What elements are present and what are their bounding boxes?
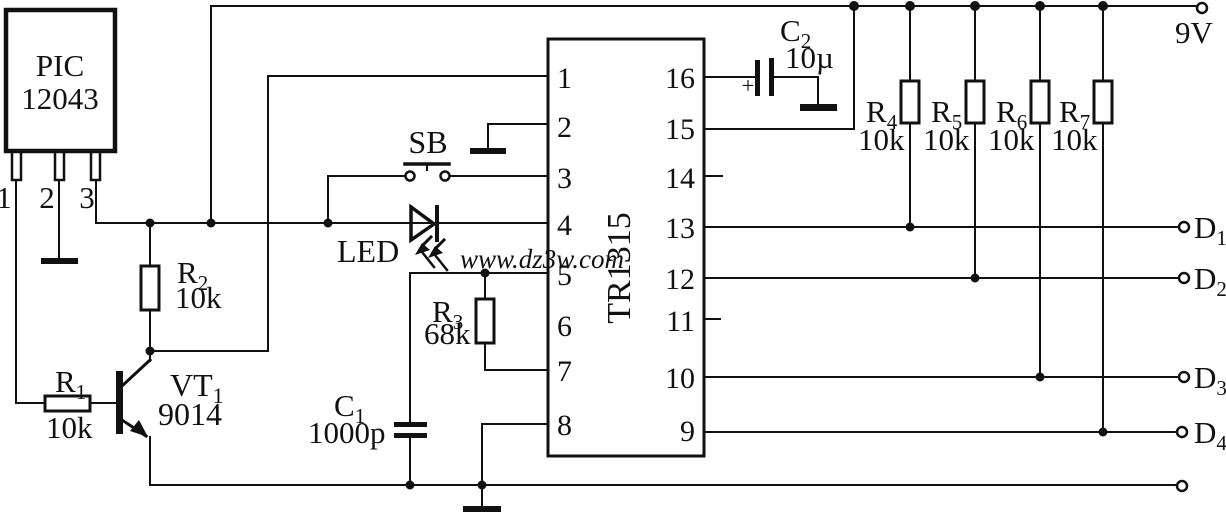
node ground junction: [478, 481, 487, 490]
svg-text:1: 1: [557, 62, 572, 95]
wire pin5 loop: [410, 273, 548, 422]
resistor R5: [974, 6, 976, 278]
svg-text:68k: 68k: [424, 316, 471, 351]
wire pin3 down and right to LED/pin4: [96, 180, 548, 223]
ground (bottom): [481, 485, 483, 506]
svg-text:13: 13: [665, 212, 695, 245]
PIC 12043: [6, 10, 115, 151]
resistor R6: [1039, 6, 1041, 377]
wire bottom rail: [150, 484, 1177, 486]
wire SB drop to LED line: [327, 176, 329, 223]
svg-text:10k: 10k: [175, 280, 222, 315]
svg-text:10µ: 10µ: [785, 40, 834, 75]
resistor R7: [1102, 6, 1104, 432]
op IC TR1315: [548, 39, 704, 456]
wire pin1 to R1: [16, 180, 45, 403]
svg-text:10k: 10k: [1051, 122, 1098, 157]
svg-text:3: 3: [79, 180, 95, 215]
wire pin10 to D3: [704, 376, 1179, 378]
wire pin2 to ground: [58, 180, 60, 257]
svg-text:10k: 10k: [988, 122, 1035, 157]
node junction R2 top: [146, 219, 155, 228]
LED emission arrow 2: [436, 240, 444, 248]
wire collector to IC pin1: [150, 76, 548, 351]
svg-text:9V: 9V: [1175, 15, 1214, 50]
svg-text:2: 2: [557, 111, 572, 144]
terminal D3: [1179, 372, 1189, 382]
svg-text:14: 14: [665, 162, 695, 195]
ground (IC pin2): [470, 148, 506, 154]
svg-text:1000p: 1000p: [308, 415, 386, 450]
svg-text:3: 3: [557, 162, 572, 195]
svg-text:+: +: [742, 73, 755, 98]
node collector junction: [146, 347, 155, 356]
terminal D4: [1177, 427, 1187, 437]
LED: [411, 207, 434, 240]
PIC pin 1: [12, 151, 21, 180]
svg-text:1: 1: [0, 180, 12, 215]
PIC pin 3: [91, 151, 100, 180]
resistor R3: [485, 273, 548, 370]
node R3 top: [481, 269, 490, 278]
terminal D2: [1179, 273, 1189, 283]
resistor R2: [149, 223, 151, 351]
LED emission arrow 1: [423, 237, 431, 245]
terminal D1: [1179, 222, 1189, 232]
svg-text:6: 6: [557, 310, 572, 343]
svg-text:4: 4: [557, 209, 572, 242]
wire pin8: [482, 424, 548, 485]
svg-text:12043: 12043: [21, 81, 99, 116]
svg-text:9: 9: [680, 415, 695, 448]
pin 11 stub: [704, 318, 720, 320]
svg-text:10k: 10k: [858, 122, 905, 157]
node junction top-wire drop: [207, 219, 216, 228]
svg-text:8: 8: [557, 409, 572, 442]
wire pin9 to D4: [704, 431, 1177, 433]
transistor VT1: [116, 371, 123, 434]
wire pin12 to D2: [704, 277, 1179, 279]
wire pin2 IC to ground: [488, 124, 548, 148]
wire R1 to base: [90, 402, 116, 404]
svg-text:11: 11: [666, 305, 695, 338]
wire pin16 to C2: [704, 76, 755, 78]
svg-text:9014: 9014: [158, 396, 222, 432]
wire top-rail drop: [210, 6, 212, 223]
svg-text:PIC: PIC: [36, 48, 84, 83]
svg-text:10k: 10k: [46, 410, 93, 445]
resistor R1: [45, 396, 90, 411]
ground (C2): [800, 104, 837, 111]
wire pin15 up to rail: [704, 6, 854, 129]
PIC pin 2: [55, 151, 64, 180]
svg-text:7: 7: [557, 355, 572, 388]
wire pin13 to D1: [704, 226, 1179, 228]
svg-text:SB: SB: [408, 124, 447, 160]
pin 14 stub: [704, 175, 722, 177]
svg-text:2: 2: [39, 180, 55, 215]
svg-text:12: 12: [665, 263, 695, 296]
node rail pin15: [849, 1, 859, 11]
node C1 bottom: [406, 481, 415, 490]
svg-text:www.dz3w.com: www.dz3w.com: [460, 244, 624, 274]
svg-text:10k: 10k: [923, 122, 970, 157]
wire SB left: [328, 175, 405, 177]
svg-text:15: 15: [665, 113, 695, 146]
svg-text:LED: LED: [337, 233, 399, 269]
wire top rail to 9V: [211, 5, 1197, 7]
capacitor C1: [394, 422, 427, 427]
svg-text:10: 10: [665, 362, 695, 395]
9V terminal: [1197, 3, 1207, 13]
resistor R4: [909, 6, 911, 227]
node junction SB drop: [324, 219, 333, 228]
wire SB right to pin3: [450, 175, 548, 177]
bottom terminal: [1177, 481, 1187, 491]
capacitor C2: [755, 60, 760, 96]
wire C2 to ground: [774, 77, 818, 104]
svg-text:16: 16: [665, 62, 695, 95]
ground (PIC pin2): [41, 258, 78, 264]
